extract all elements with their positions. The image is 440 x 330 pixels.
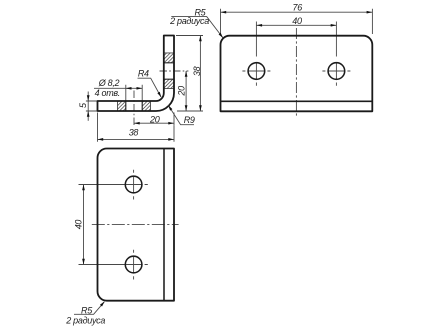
bottom view: dimension line 40 (83, 185, 85, 265)
side view: hatch of local section, horizontal leg right (142, 101, 150, 111)
bottom view: symmetry centerline (92, 224, 179, 226)
side view: hole callout shelf and dia 8,2 dimension line (94, 87, 142, 89)
front view: dimension line 40 (256, 24, 336, 26)
front view: hole 2 (328, 63, 345, 80)
bottom view: hole 1 (125, 176, 142, 193)
front view: bend tangent edge line (221, 100, 373, 102)
side view: extension lines for overall width 38 (98, 113, 175, 142)
side view: arrowheads of dim 38 vertical (199, 36, 202, 112)
bottom view: hole 2 centerlines and extension line (79, 264, 125, 266)
side view: hatch of local section, vertical leg lower (164, 79, 174, 88)
side view: arrowheads of dia 8,2 (126, 87, 142, 90)
bottom view: bend edge line (163, 149, 165, 301)
svg-text:R5: R5 (81, 305, 93, 315)
front view: arrowheads of dim 40 (256, 24, 336, 27)
front view: arrowhead of R5 leader (219, 33, 225, 39)
svg-text:2 радиуса: 2 радиуса (65, 315, 105, 325)
side view: hatch of local section, horizontal leg left (118, 101, 126, 111)
side view: arrowhead of R9 leader (167, 104, 172, 110)
side view: dimension line 5 (87, 92, 89, 121)
side view: arrowheads of dim 20 vertical (185, 71, 188, 111)
svg-text:38: 38 (192, 66, 202, 76)
front view: dimension line 76 (221, 11, 373, 13)
side view: hole centerline in horizontal leg (133, 91, 135, 126)
bottom view: arrowheads of dim 40 (82, 185, 85, 265)
svg-text:R9: R9 (184, 115, 195, 125)
side view: extension line right edge bottom (173, 113, 175, 126)
side view: hole edge lines, horizontal leg (126, 101, 142, 111)
svg-text:R4: R4 (138, 69, 149, 79)
side view: hatch of local section, vertical leg upper (164, 53, 174, 63)
svg-text:2 радиуса: 2 радиуса (169, 16, 209, 26)
side view: extension lines for overall height 38 (176, 36, 203, 112)
side view: leader R9 (168, 105, 194, 124)
svg-text:20: 20 (149, 115, 160, 125)
side view: dimension line 20 horizontal (134, 122, 174, 124)
side view: arrowheads of dim 5 (87, 95, 90, 116)
side view: break lines of local section, vertical leg (164, 53, 174, 89)
side view: extension lines of hole dia (126, 85, 142, 101)
side view: outline of angle profile (98, 36, 175, 112)
front view: hole 1 (248, 63, 265, 80)
bottom view: leader R5 with shelf (74, 302, 104, 315)
svg-text:4 отв.: 4 отв. (95, 88, 120, 98)
front view: arrowheads of dim 76 (221, 11, 373, 14)
front view: symmetry centerline (295, 28, 297, 118)
svg-text:20: 20 (177, 86, 187, 97)
front view: hole 1 centerlines (255, 22, 257, 57)
front view: hole 2 centerlines (335, 22, 337, 57)
svg-text:76: 76 (292, 2, 302, 12)
svg-text:Ø 8,2: Ø 8,2 (98, 78, 120, 88)
bottom view: hole 2 (125, 256, 142, 273)
front view: outline plate (221, 36, 373, 112)
side view: arrowhead of R4 leader (157, 92, 162, 98)
side view: dimension line 20 vertical (185, 71, 187, 111)
side view: hole centerline in vertical leg (160, 70, 189, 72)
svg-text:40: 40 (292, 16, 302, 26)
svg-text:40: 40 (73, 220, 83, 230)
side view: dimension line 38 vertical (199, 36, 201, 112)
side view: extension lines for thickness dim 5 (86, 101, 98, 111)
side view: arrowheads of dim 38 horizontal (98, 138, 175, 141)
front view: leader R5 with shelf (171, 17, 223, 38)
bottom view: arrowhead of R5 leader (100, 300, 106, 306)
side view: break lines of local section, horizontal leg (118, 101, 151, 111)
side view: leader R4 with shelf (138, 78, 162, 97)
side view: hole edge lines, vertical leg (164, 63, 174, 79)
side view: dimension line 38 horizontal (98, 138, 175, 140)
side view: arrowheads of dim 20 horizontal (134, 122, 174, 125)
bottom view: outline plate (98, 149, 175, 301)
front view: extension lines for width 76 (221, 9, 373, 34)
svg-text:38: 38 (129, 128, 139, 138)
bottom view: hole 1 centerlines and extension line (79, 184, 125, 186)
